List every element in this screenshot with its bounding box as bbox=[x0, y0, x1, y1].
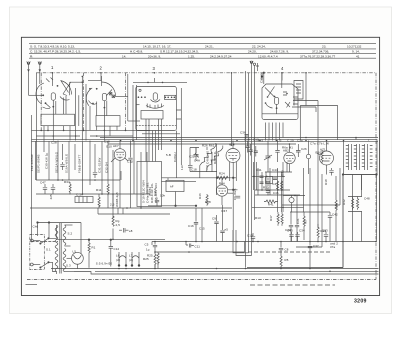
AF block box bbox=[137, 162, 162, 207]
capacitor C42 bbox=[328, 212, 332, 242]
wire y205.5 bbox=[148, 205, 197, 207]
svg-text:R44: R44 bbox=[219, 182, 225, 186]
capacitor C8 bbox=[279, 242, 289, 256]
svg-text:C: 15,26, 46,47,P:28,16,25,34,: C: 15,26, 46,47,P:28,16,25,34,2,-1,5, bbox=[30, 50, 81, 54]
svg-text:(A): (A) bbox=[129, 258, 133, 262]
screen return A bbox=[233, 230, 249, 253]
main bus lower bbox=[32, 140, 379, 142]
svg-text:R:: R: bbox=[30, 54, 33, 58]
svg-text:F1d-420SW: F1d-420SW bbox=[30, 154, 34, 171]
resistor R12 bbox=[98, 194, 100, 208]
trimmer strip right of S-3 bbox=[176, 88, 181, 178]
svg-text:AF7: AF7 bbox=[113, 144, 119, 148]
svg-text:e5: e5 bbox=[225, 228, 229, 232]
svg-text:C16: C16 bbox=[188, 224, 194, 228]
svg-text:C12: C12 bbox=[114, 247, 120, 251]
svg-text:1µ: 1µ bbox=[146, 248, 150, 252]
svg-text:C14: C14 bbox=[244, 138, 250, 142]
resistor R38 bbox=[281, 212, 283, 226]
junction dots lower-left bbox=[57, 179, 142, 209]
svg-text:C46-2,30: C46-2,30 bbox=[206, 151, 210, 164]
svg-text:R25: R25 bbox=[147, 254, 153, 258]
svg-text:C9: C9 bbox=[212, 217, 216, 221]
svg-text:C47: C47 bbox=[40, 181, 46, 185]
svg-text:24,60,7,26, 9,: 24,60,7,26, 9, bbox=[270, 50, 289, 54]
right cluster labels bbox=[247, 168, 339, 248]
svg-text:R24: R24 bbox=[219, 171, 225, 175]
switch contact Ch lower bbox=[40, 262, 57, 272]
resistor R35 bbox=[335, 176, 337, 241]
right bottom nested box bbox=[330, 175, 343, 268]
svg-text:R5: R5 bbox=[304, 220, 308, 224]
padder strip P1 bbox=[206, 147, 208, 170]
switch wafer S-4 divider bbox=[262, 113, 298, 115]
resistor R27 diagonal bbox=[207, 148, 223, 168]
right cluster verticals bbox=[304, 112, 344, 268]
mid band labels bbox=[189, 138, 329, 176]
T1 tap wires bbox=[65, 225, 75, 272]
capacitor C40 bbox=[289, 212, 293, 242]
resistor R46 bbox=[198, 193, 208, 206]
svg-text:S.3: S.3 bbox=[66, 264, 71, 268]
screen return B bbox=[236, 230, 252, 256]
mid-low box edge bbox=[98, 194, 170, 214]
lower-left labels bbox=[40, 145, 184, 208]
coil box under S-2 bbox=[96, 116, 120, 127]
resistor R9 bbox=[112, 214, 120, 239]
wires below coil box S-1 bbox=[44, 126, 70, 141]
caps in right cluster bbox=[260, 176, 278, 184]
diode D1 bbox=[289, 195, 294, 212]
wires below S-1 bbox=[36, 73, 86, 180]
svg-text:R37: R37 bbox=[269, 215, 273, 221]
svg-text:S: G, 7,8,10,3,4,9,16, 8,10: S: G, 7,8,10,3,4,9,16, 8,10, 5,13, bbox=[30, 45, 75, 49]
switch wafer S-1 bbox=[29, 78, 83, 109]
wire: heater supply bus bbox=[56, 238, 165, 240]
antenna A3 bbox=[250, 61, 253, 71]
svg-text:10,271132: 10,271132 bbox=[347, 45, 362, 49]
screen box wire stubs bbox=[353, 175, 362, 242]
svg-text:C30-KW 2µ: C30-KW 2µ bbox=[45, 152, 49, 169]
resistor R39 bbox=[317, 224, 319, 242]
svg-text:377a,76,37,22,28,3,36,77: 377a,76,37,22,28,3,36,77 bbox=[300, 54, 336, 58]
wire: top feed section 3 bbox=[133, 78, 187, 82]
bus y136 segments bbox=[36, 135, 133, 137]
resistor R45 bbox=[280, 255, 289, 268]
svg-text:C48: C48 bbox=[364, 197, 370, 201]
svg-text:C44: C44 bbox=[272, 168, 278, 172]
svg-text:R26 R61: R26 R61 bbox=[202, 144, 215, 148]
wires at diagonal resistors bbox=[162, 143, 293, 181]
inner coil box S-3 bbox=[136, 111, 177, 126]
capacitor C16 bbox=[188, 208, 198, 242]
capacitor C9b bbox=[212, 215, 219, 242]
choke L7 bbox=[131, 252, 140, 266]
heater bus bbox=[108, 143, 296, 145]
svg-text:R5: R5 bbox=[285, 258, 289, 262]
svg-text:23,: 23, bbox=[322, 45, 326, 49]
svg-text:C22: C22 bbox=[189, 154, 195, 158]
svg-text:R13: R13 bbox=[263, 186, 269, 190]
svg-text:L.5: L.5 bbox=[277, 139, 282, 143]
wires below S-2 bbox=[104, 74, 140, 140]
switch wafer S-4 stator leads bbox=[260, 72, 282, 88]
svg-text:W04B-2µ5: W04B-2µ5 bbox=[115, 192, 119, 207]
bottom bus 2 bbox=[95, 270, 379, 272]
resistor R40 bbox=[281, 181, 283, 191]
dots on left buses bbox=[40, 130, 126, 142]
resistor R25 bbox=[143, 252, 156, 267]
capacitor C26 bbox=[296, 144, 301, 157]
left feed wires bbox=[252, 162, 305, 212]
main vertical rails bbox=[32, 71, 255, 268]
svg-text:R46: R46 bbox=[198, 193, 202, 199]
svg-text:12,60,-R,4,7,4: 12,60,-R,4,7,4 bbox=[258, 54, 278, 58]
right cluster frame wires bbox=[247, 168, 343, 268]
svg-text:22, 24,24,: 22, 24,24, bbox=[252, 45, 266, 49]
switch wafer S-4 inner bbox=[265, 87, 298, 114]
svg-text:2,5: 2,5 bbox=[116, 223, 121, 227]
svg-text:C33: C33 bbox=[322, 229, 328, 233]
wire: HT negative bus bbox=[152, 241, 376, 243]
parts list row 3 bbox=[30, 54, 360, 58]
right rail wires bbox=[353, 138, 377, 242]
antenna A4 bbox=[253, 63, 259, 71]
main bus upper bbox=[32, 139, 344, 141]
capacitor C15 label bbox=[148, 186, 205, 230]
svg-text:F0&B-S04TT: F0&B-S04TT bbox=[78, 155, 82, 173]
chassis dash-dot boundary bbox=[27, 73, 376, 280]
switch wafer S-3 inner bbox=[136, 89, 176, 108]
svg-text:C4A: C4A bbox=[194, 159, 200, 163]
wires below S-4 bbox=[266, 123, 284, 141]
S-3 contact dots bbox=[138, 96, 176, 98]
IF coil lead L2 bbox=[48, 141, 50, 180]
tube V3 bbox=[284, 144, 295, 172]
wire: stator leads section 4 bbox=[261, 73, 282, 81]
svg-text:C:1n: C:1n bbox=[76, 193, 83, 197]
svg-text:425: 425 bbox=[49, 194, 53, 200]
bottom bus 3 bbox=[110, 273, 379, 275]
svg-text:C11: C11 bbox=[195, 245, 201, 249]
svg-text:24,20,: 24,20, bbox=[248, 50, 257, 54]
wire: stator lead section 1 bbox=[52, 73, 54, 86]
svg-text:14,: 14, bbox=[122, 54, 126, 58]
svg-text:R41: R41 bbox=[268, 202, 274, 206]
svg-text:C41: C41 bbox=[256, 168, 262, 172]
wire: V5 drop bbox=[202, 205, 223, 242]
svg-text:10h: 10h bbox=[160, 194, 166, 198]
T1 secondary S3 bbox=[63, 249, 66, 272]
resistor R26 diagonal bbox=[200, 146, 216, 166]
svg-text:R40: R40 bbox=[281, 170, 285, 176]
svg-text:C43: C43 bbox=[287, 229, 293, 233]
svg-text:C36: C36 bbox=[240, 131, 246, 135]
C-box strip bbox=[75, 197, 93, 203]
tube V4 bbox=[317, 141, 334, 175]
resistor R43 bbox=[342, 197, 370, 212]
svg-text:AL4: AL4 bbox=[229, 143, 235, 147]
svg-text:24,21,: 24,21, bbox=[205, 45, 214, 49]
svg-text:hF: hF bbox=[170, 185, 174, 189]
capacitor C48 bbox=[51, 184, 55, 194]
svg-text:R34: R34 bbox=[64, 180, 70, 184]
note text bbox=[330, 242, 338, 250]
resistor R41h bbox=[264, 200, 278, 206]
parts list table rules bbox=[29, 44, 376, 59]
T1 secondary S2 bbox=[63, 225, 66, 245]
IF coil lead L8 bbox=[101, 141, 103, 194]
svg-text:S.R.12,17,18,19,24,32,34,5,: S.R.12,17,18,19,24,32,34,5, bbox=[160, 50, 199, 54]
svg-text:C9-W26: C9-W26 bbox=[233, 188, 237, 200]
svg-text:R11: R11 bbox=[96, 188, 102, 192]
resistor R34 bbox=[69, 182, 71, 195]
detector block box bbox=[166, 178, 184, 206]
switch wafer S-2 bbox=[86, 76, 128, 130]
capacitor C47r bbox=[266, 178, 279, 187]
mid bus dots bbox=[88, 239, 377, 253]
svg-text:R23-1,1L: R23-1,1L bbox=[213, 151, 217, 164]
switch wafer S-4 outer can bbox=[262, 84, 298, 120]
output transformer T2 bbox=[342, 140, 377, 176]
left lower wires bbox=[26, 242, 336, 286]
capacitor C47 bbox=[43, 184, 47, 194]
capacitor e8 bbox=[119, 228, 133, 233]
svg-text:3209: 3209 bbox=[354, 299, 367, 305]
switch contact Ch upper bbox=[40, 225, 57, 244]
resistor R5 bbox=[303, 212, 305, 240]
svg-text:C18: C18 bbox=[191, 168, 197, 172]
parts list row 2 bbox=[30, 50, 360, 54]
IF coil lead L1 bbox=[35, 141, 37, 180]
svg-text:AZ1: AZ1 bbox=[320, 148, 326, 152]
svg-text:M.5: M.5 bbox=[258, 139, 264, 143]
tube type labels bbox=[113, 143, 326, 213]
svg-text:C13: C13 bbox=[247, 234, 253, 238]
svg-text:37,2,34,736,: 37,2,34,736, bbox=[312, 50, 329, 54]
capacitor C36r bbox=[240, 131, 249, 137]
svg-text:1LF: 1LF bbox=[180, 164, 184, 170]
svg-text:C21: C21 bbox=[296, 218, 300, 224]
IF strip rotated labels bbox=[30, 140, 110, 174]
svg-text:C15: C15 bbox=[199, 227, 205, 231]
svg-text:C20xH: C20xH bbox=[173, 152, 177, 162]
figure number bbox=[354, 299, 367, 305]
resistor R42 bbox=[348, 197, 362, 210]
svg-text:C.29: C.29 bbox=[287, 139, 294, 143]
switch wafer S-3 outer can bbox=[136, 87, 177, 131]
trimmer T3 bbox=[264, 141, 280, 173]
S-4 contact dots bbox=[265, 93, 288, 109]
screen box top right bbox=[294, 73, 306, 106]
wires below coil box S-2 bbox=[97, 126, 117, 140]
capacitor C35 bbox=[60, 162, 64, 170]
svg-text:C31-S18W: C31-S18W bbox=[98, 158, 102, 173]
transformer labels bbox=[33, 225, 134, 268]
power transformer T1 primary S1 bbox=[55, 225, 58, 274]
resistor R25b bbox=[147, 252, 159, 265]
svg-text:C1µ: C1µ bbox=[127, 160, 133, 164]
capacitor C36 bbox=[93, 170, 97, 178]
capacitor C11 bbox=[186, 242, 200, 249]
HT bus bbox=[100, 137, 378, 139]
bottom bus dots bbox=[118, 268, 331, 272]
capacitor C9s bbox=[220, 227, 228, 242]
resistor R1 bbox=[88, 239, 90, 268]
choke L6 bbox=[118, 252, 127, 266]
schematic outer border bbox=[21, 37, 379, 295]
tube V2 bbox=[226, 141, 240, 242]
caps row C14 C12 bbox=[245, 141, 257, 157]
capacitor C4a bbox=[188, 162, 193, 172]
svg-text:R13: R13 bbox=[255, 216, 261, 220]
capacitor C5 bbox=[145, 242, 158, 253]
oscillator screen box bbox=[300, 106, 337, 141]
svg-text:S.2: S.2 bbox=[68, 232, 73, 236]
svg-text:C28: C28 bbox=[51, 141, 57, 145]
svg-text:S.1: S.1 bbox=[46, 248, 51, 252]
svg-text:G10: G10 bbox=[106, 145, 112, 149]
svg-text:20+36, 9,: 20+36, 9, bbox=[148, 54, 161, 58]
svg-text:C18: C18 bbox=[104, 140, 110, 144]
svg-text:41: 41 bbox=[356, 54, 360, 58]
S-1 contact dots bbox=[42, 76, 83, 108]
svg-text:37a: 37a bbox=[330, 245, 336, 249]
resistor R41 bbox=[277, 181, 279, 191]
wafer section labels bbox=[51, 65, 284, 71]
svg-text:14,15, 10,17, 16, 17,: 14,15, 10,17, 16, 17, bbox=[143, 45, 172, 49]
pilot lamp L5 bbox=[67, 252, 84, 268]
resistor R37 bbox=[277, 212, 279, 226]
svg-text:AB2: AB2 bbox=[283, 149, 289, 153]
svg-text:R25: R25 bbox=[143, 257, 149, 261]
transformer step wire bbox=[74, 272, 110, 275]
S-4 right output wires bbox=[292, 101, 318, 113]
capacitor C12b bbox=[109, 239, 120, 267]
resistor R10 bbox=[316, 150, 324, 163]
resistor R24 bbox=[217, 176, 228, 179]
parts list row 1 bbox=[30, 45, 362, 49]
IF coil lead L3 bbox=[68, 141, 70, 180]
svg-text:S:5 6,9×/50: S:5 6,9×/50 bbox=[96, 261, 113, 265]
svg-text:9, 14,: 9, 14, bbox=[352, 50, 360, 54]
bus junction dots bbox=[120, 137, 357, 145]
svg-text:C45: C45 bbox=[273, 191, 279, 195]
svg-text:(A): (A) bbox=[116, 258, 120, 262]
wire: cathode return riser bbox=[244, 242, 246, 253]
capacitor C45 bbox=[266, 188, 279, 196]
svg-text:C310: C310 bbox=[153, 188, 157, 196]
svg-text:1,25,: 1,25, bbox=[188, 54, 195, 58]
wires below S-3 bbox=[142, 119, 180, 162]
junction dots on chassis line bbox=[52, 72, 307, 74]
trimmer T4 bbox=[306, 141, 310, 175]
svg-text:R1: R1 bbox=[92, 246, 96, 250]
wire: C5 stub bbox=[151, 242, 153, 246]
antenna A1 bbox=[27, 62, 31, 96]
left mid wires bbox=[44, 141, 113, 209]
coil box under S-1 bbox=[41, 114, 75, 126]
IF coil lead L4 bbox=[82, 141, 84, 194]
svg-text:C5: C5 bbox=[145, 243, 149, 247]
wire: cathode return bus bbox=[155, 251, 245, 253]
capacitor C24 bbox=[155, 198, 159, 206]
svg-text:C30H2: C30H2 bbox=[260, 73, 264, 83]
mains top bus bbox=[37, 222, 81, 254]
svg-text:H.C.45.8,: H.C.45.8, bbox=[130, 50, 143, 54]
caps above right bus bbox=[251, 232, 328, 242]
tube V5 bbox=[216, 178, 240, 205]
svg-text:C8: C8 bbox=[285, 248, 289, 252]
svg-text:e8: e8 bbox=[129, 229, 133, 233]
capacitor C37 bbox=[308, 242, 312, 268]
antenna A2 bbox=[38, 62, 42, 84]
T1 core bbox=[60, 223, 61, 274]
svg-text:C34: C34 bbox=[299, 229, 305, 233]
wires mid left of V2 bbox=[190, 144, 217, 195]
svg-text:C2a: C2a bbox=[297, 139, 303, 143]
svg-text:SE/P1-W04B: SE/P1-W04B bbox=[37, 154, 41, 173]
dashed return wire bbox=[248, 251, 330, 253]
svg-text:C37: C37 bbox=[313, 244, 319, 248]
capacitor C22 bbox=[190, 148, 199, 162]
mains plug P1 bbox=[30, 235, 45, 270]
bus y130 left bbox=[32, 129, 151, 131]
wire: stator lead section 2 bbox=[100, 73, 102, 81]
lower-left component row wires bbox=[30, 141, 232, 209]
svg-text:5-B: 5-B bbox=[166, 153, 171, 157]
svg-text:Ch6: Ch6 bbox=[33, 225, 39, 229]
S-2 contact dots bbox=[89, 88, 114, 109]
svg-text:R42: R42 bbox=[342, 199, 346, 205]
capacitor C30 left edge bbox=[324, 168, 334, 185]
svg-text:C42: C42 bbox=[332, 213, 338, 217]
svg-text:WW81: WW81 bbox=[148, 186, 152, 196]
svg-text:R18: R18 bbox=[324, 179, 328, 185]
bottom bus 1 bbox=[51, 268, 379, 270]
svg-text:R35: R35 bbox=[335, 203, 339, 209]
svg-text:24,2,34,9,37,24: 24,2,34,9,37,24 bbox=[210, 54, 232, 58]
capacitor C21 bbox=[295, 195, 299, 242]
tube V1 bbox=[111, 141, 128, 208]
svg-text:C26: C26 bbox=[301, 147, 307, 151]
svg-text:S16A-W26LG: S16A-W26LG bbox=[65, 153, 69, 173]
cluster dots bbox=[253, 176, 296, 209]
svg-text:2,5: 2,5 bbox=[110, 203, 115, 207]
